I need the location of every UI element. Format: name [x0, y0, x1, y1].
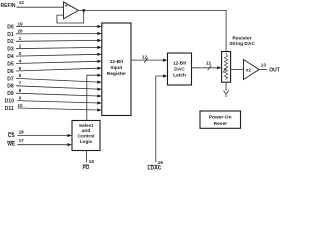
node D5 pin 4	[7, 58, 102, 67]
svg-text:12-Bit: 12-Bit	[173, 61, 187, 67]
node D8 pin 7	[7, 81, 102, 91]
svg-text:19: 19	[18, 21, 24, 26]
svg-text:16: 16	[158, 160, 164, 165]
svg-text:CS: CS	[8, 133, 16, 139]
node D3 pin 2	[7, 44, 102, 53]
wire resistor DAC to output amp	[231, 69, 244, 71]
svg-text:D0: D0	[7, 24, 14, 30]
svg-text:D11: D11	[5, 106, 14, 112]
node D11 pin 10	[5, 103, 102, 112]
resistor string DAC U4	[222, 52, 231, 83]
node WE pin 17	[7, 138, 72, 148]
svg-text:Input: Input	[111, 65, 123, 71]
svg-text:Resistor: Resistor	[232, 36, 251, 42]
node OUT pin 13	[259, 62, 280, 73]
svg-text:17: 17	[19, 138, 25, 143]
svg-text:LDAC: LDAC	[148, 166, 162, 171]
register U2 12-Bit Input Register	[102, 23, 131, 116]
svg-text:8: 8	[19, 88, 22, 93]
svg-text:+: +	[65, 4, 68, 10]
svg-text:D6: D6	[7, 69, 14, 75]
latch U3 12-Bit DAC Latch	[168, 53, 192, 85]
svg-text:2: 2	[19, 44, 22, 49]
node CS pin 18	[8, 129, 72, 139]
svg-text:D8: D8	[7, 84, 14, 90]
op-amp U5 x2 output amplifier	[244, 60, 260, 80]
wire bus register to DAC latch, 12	[131, 54, 168, 62]
svg-text:Register: Register	[107, 71, 126, 77]
svg-text:3: 3	[19, 51, 22, 56]
node D0 pin 19	[7, 21, 102, 30]
ground below resistor string DAC	[224, 82, 229, 96]
svg-text:PD: PD	[83, 165, 90, 170]
svg-text:REFIN: REFIN	[1, 3, 16, 9]
svg-text:Reset: Reset	[214, 121, 227, 127]
svg-text:20: 20	[18, 29, 24, 34]
svg-text:and: and	[82, 128, 91, 134]
node D1 pin 20	[7, 29, 102, 38]
svg-text:D7: D7	[7, 76, 14, 82]
svg-text:Power-On: Power-On	[209, 115, 232, 121]
node D6 pin 5	[7, 66, 102, 75]
svg-text:Control: Control	[77, 134, 94, 140]
svg-text:Logic: Logic	[80, 139, 93, 145]
select and control logic block	[72, 121, 100, 151]
svg-text:D4: D4	[7, 54, 14, 60]
node D9 pin 8	[7, 88, 102, 98]
node D7 pin 6	[7, 73, 102, 84]
svg-text:9: 9	[19, 95, 22, 100]
wire LDAC to DAC latch	[156, 74, 168, 162]
wire buffer output to resistor string DAC top	[79, 10, 227, 51]
node D2 pin 1	[7, 36, 102, 45]
svg-text:1: 1	[19, 36, 22, 41]
node REFIN	[1, 0, 64, 9]
svg-text:x2: x2	[246, 67, 252, 72]
label Resistor String DAC	[229, 36, 255, 48]
node feedback junction	[82, 9, 85, 12]
node D4 pin 3	[7, 51, 102, 60]
svg-text:12: 12	[142, 54, 148, 59]
node D10 pin 9	[5, 95, 102, 104]
node PD pin 15	[83, 151, 95, 172]
svg-text:4: 4	[19, 58, 22, 63]
svg-text:18: 18	[19, 129, 25, 134]
svg-text:10: 10	[18, 103, 24, 108]
svg-text:12-Bit: 12-Bit	[110, 59, 124, 65]
svg-text:15: 15	[89, 159, 95, 164]
svg-text:Select: Select	[79, 123, 94, 129]
op-amp U1 (REFIN buffer)	[64, 2, 79, 19]
svg-text:D5: D5	[7, 61, 14, 67]
svg-text:WE: WE	[7, 142, 16, 148]
svg-text:D2: D2	[7, 39, 14, 45]
svg-text:D3: D3	[7, 47, 14, 53]
wire bus DAC latch to resistor string DAC, 12	[192, 60, 222, 70]
svg-text:6: 6	[19, 73, 22, 78]
svg-text:13: 13	[261, 62, 267, 67]
svg-text:OUT: OUT	[269, 68, 280, 74]
svg-text:5: 5	[19, 66, 22, 71]
wire U1 feedback loop	[57, 10, 84, 23]
svg-text:String DAC: String DAC	[229, 41, 255, 47]
svg-text:Latch: Latch	[173, 73, 186, 79]
svg-text:DAC: DAC	[174, 67, 185, 73]
node LDAC pin 16	[147, 160, 163, 172]
power-on reset block	[200, 111, 241, 128]
wire select logic to input register	[87, 74, 102, 121]
svg-text:D1: D1	[7, 32, 14, 38]
svg-text:D10: D10	[5, 99, 14, 105]
svg-text:7: 7	[19, 81, 22, 86]
svg-text:12: 12	[206, 60, 212, 65]
svg-text:D9: D9	[7, 91, 14, 97]
svg-text:12: 12	[19, 0, 25, 5]
